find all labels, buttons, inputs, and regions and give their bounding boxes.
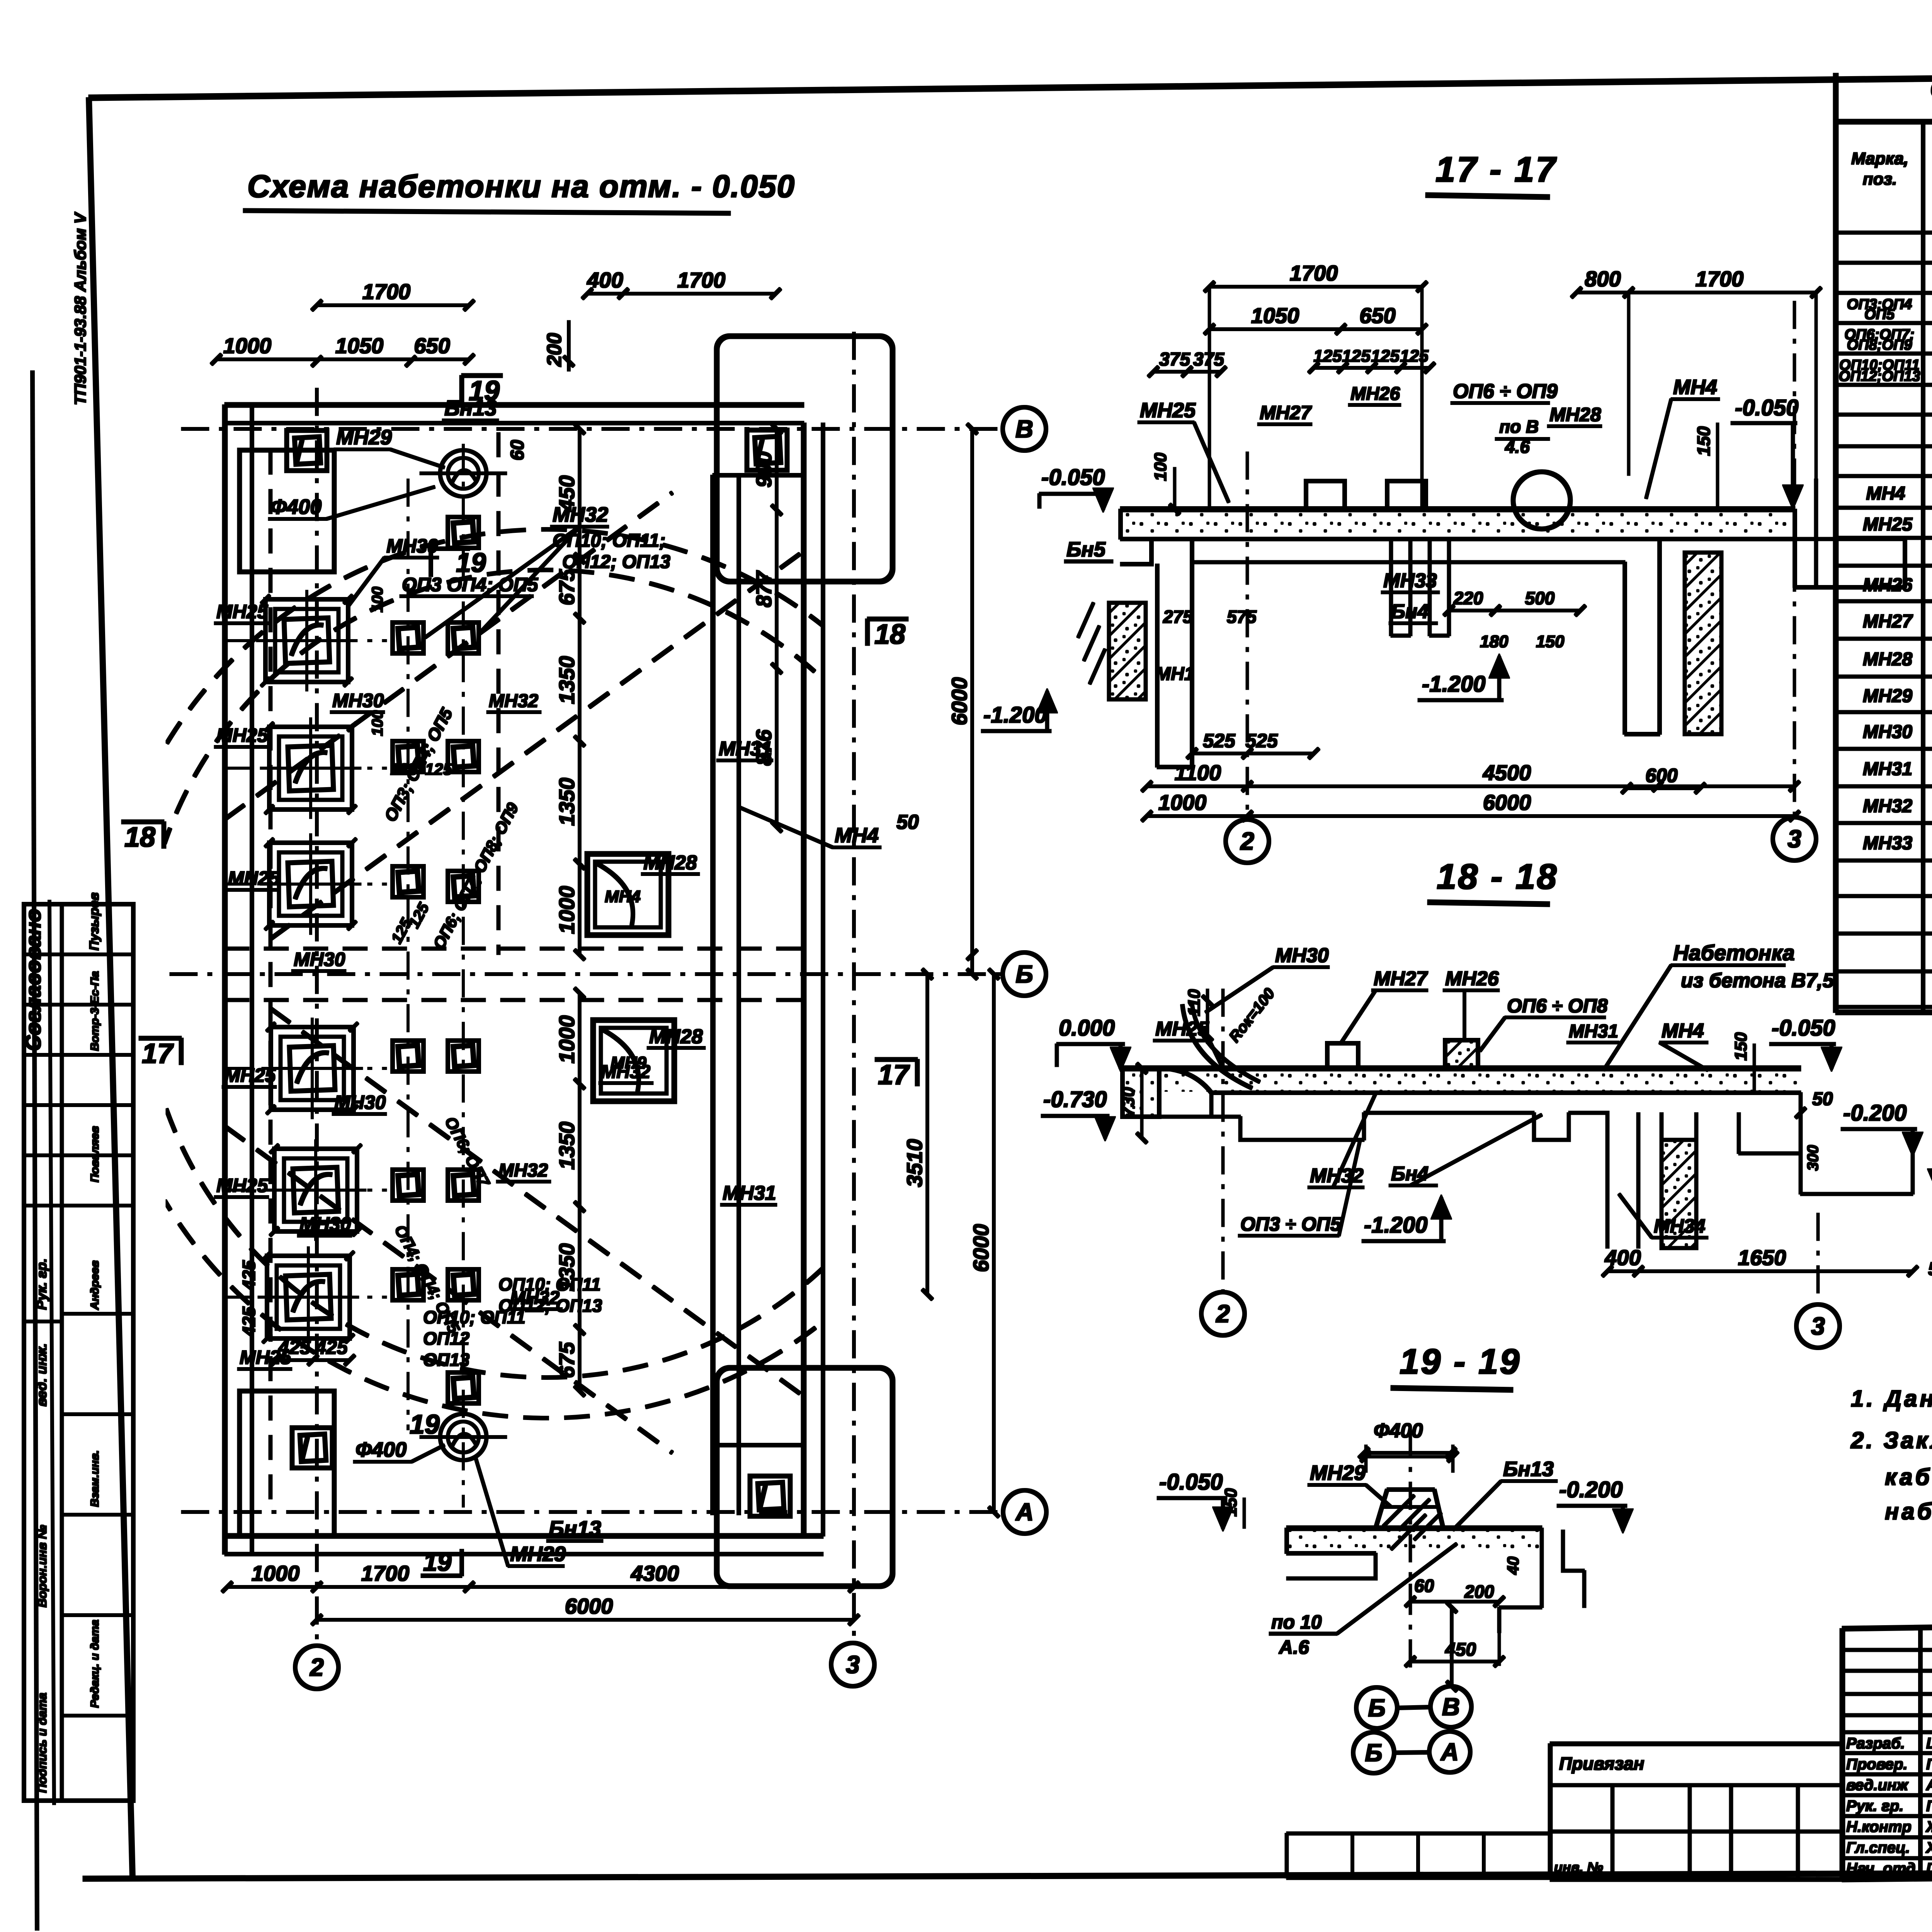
svg-text:Бн4: Бн4 [1391, 1163, 1429, 1185]
pad MH25 #1 [265, 599, 348, 682]
svg-text:Ф400: Ф400 [1374, 1420, 1423, 1442]
svg-text:19: 19 [423, 1548, 452, 1576]
pad small bottom axis2 [292, 1428, 332, 1468]
privyazan left strip [1287, 1832, 1550, 1835]
svg-text:Бн5: Бн5 [1066, 538, 1106, 561]
svg-text:19: 19 [456, 548, 486, 578]
svg-text:Провер.: Провер. [1846, 1756, 1908, 1773]
s17 left hatch block [1109, 603, 1146, 699]
pad MH25 #4 [271, 1027, 354, 1110]
embed MH29 bottom circle [440, 1414, 486, 1460]
svg-text:ОП12; ОП13: ОП12; ОП13 [498, 1296, 602, 1316]
svg-text:МН32: МН32 [553, 503, 608, 526]
svg-text:МН30: МН30 [334, 1092, 386, 1113]
svg-text:-1.200: -1.200 [1422, 672, 1485, 697]
svg-text:МН27: МН27 [1260, 402, 1312, 423]
svg-text:1. Данный лист рассматриват: 1. Данный лист рассматривать совместно с… [1851, 1386, 1932, 1412]
svg-text:675: 675 [554, 1342, 579, 1378]
svg-text:150: 150 [1694, 426, 1714, 456]
plan chain pad row 2 [225, 767, 386, 769]
svg-text:300: 300 [1804, 1145, 1821, 1171]
svg-text:ОП5: ОП5 [1864, 306, 1895, 323]
svg-text:ОП8;ОП9: ОП8;ОП9 [1847, 337, 1912, 353]
embed square #8 [448, 1041, 479, 1071]
sheet left edge line [32, 371, 37, 1930]
s17 mid stub 1 [1389, 539, 1393, 636]
svg-text:Андреева: Андреева [1926, 1777, 1932, 1794]
svg-text:МН32: МН32 [1310, 1165, 1364, 1187]
svg-text:1700: 1700 [1290, 261, 1338, 285]
s17 bottom dim 1100 4500 [1147, 785, 1794, 788]
svg-text:1350: 1350 [554, 778, 579, 826]
s19 center chain [1409, 1430, 1412, 1673]
svg-text:МН26: МН26 [1350, 384, 1400, 404]
svg-text:525: 525 [1203, 730, 1236, 752]
svg-text:50: 50 [1928, 1259, 1932, 1279]
svg-text:поз.: поз. [1863, 170, 1897, 189]
s17 under slab line [1192, 561, 1625, 564]
svg-text:МН32: МН32 [601, 1062, 650, 1082]
plan right vertical dim 6000 (Б-А) [993, 974, 995, 1512]
privyazan box [1550, 1742, 1842, 1746]
svg-text:4500: 4500 [1483, 760, 1531, 785]
pad MH25 #3 [269, 843, 352, 925]
svg-text:МН25: МН25 [216, 601, 269, 622]
s19 dim 450 vert [1451, 1607, 1453, 1686]
svg-text:50: 50 [896, 811, 919, 833]
plan top-left niche [240, 450, 334, 572]
svg-text:Взам.инв.: Взам.инв. [88, 1450, 101, 1507]
svg-text:375: 375 [1159, 349, 1190, 370]
svg-text:1100: 1100 [1175, 760, 1221, 785]
s17 left ledge [1121, 539, 1151, 564]
svg-text:6000: 6000 [947, 677, 971, 726]
plan bottom dim 6000 [317, 1619, 854, 1621]
plan bottom-right room outline [717, 1368, 893, 1586]
svg-text:425: 425 [239, 1306, 259, 1337]
plan top-right dims 400/1700 [587, 293, 776, 295]
s17 axis 3 line [1793, 301, 1796, 817]
svg-text:125: 125 [390, 760, 418, 778]
s18 axis 2 line [1222, 989, 1224, 1292]
svg-text:17: 17 [878, 1060, 910, 1090]
s17 dims 525 525 [1192, 752, 1314, 755]
svg-text:МН28: МН28 [1863, 649, 1912, 670]
svg-text:МН29: МН29 [1310, 1461, 1366, 1485]
svg-text:Гразоболева: Гразоболева [1926, 1860, 1932, 1877]
plan axis Б horizontal chain line [170, 973, 1002, 976]
svg-text:вед. инж.: вед. инж. [34, 1343, 49, 1406]
s17 dims 220 500 [1449, 609, 1495, 612]
svg-text:400: 400 [587, 268, 623, 292]
svg-text:Андреев: Андреев [88, 1260, 101, 1310]
embed square #6 [448, 871, 479, 902]
plan top dims 1000/1050/650 [216, 358, 469, 361]
s18 hatch pier [1662, 1140, 1696, 1248]
svg-text:Набетонка: Набетонка [1673, 940, 1795, 965]
svg-text:МН1: МН1 [1155, 664, 1194, 684]
plan right wall [801, 423, 806, 1536]
svg-text:1700: 1700 [362, 279, 411, 304]
svg-text:Б: Б [1365, 1739, 1382, 1767]
s17 slab top line [1121, 507, 1795, 512]
svg-text:МН4: МН4 [1673, 376, 1717, 399]
svg-text:18: 18 [124, 822, 155, 853]
embed square #4 [448, 741, 479, 772]
svg-text:МН27: МН27 [1374, 968, 1428, 990]
plan dashed band at axis Б [225, 947, 804, 950]
svg-text:-0.050: -0.050 [1735, 395, 1798, 420]
s19 slab left edge [1285, 1528, 1289, 1553]
s17 dims 800 1700 right [1577, 291, 1816, 294]
plan chain pad row 6 [225, 1296, 386, 1298]
plan bottom dim line 1 [227, 1586, 854, 1588]
plan bottom wall [225, 1534, 823, 1538]
svg-text:730: 730 [1118, 1087, 1138, 1117]
plan dashed diagonal upper 1 [225, 493, 672, 819]
svg-text:ТП901-1-93.88 Альбом V: ТП901-1-93.88 Альбом V [71, 212, 89, 405]
plan top wall [225, 403, 804, 407]
svg-text:Н.контр: Н.контр [1846, 1818, 1912, 1835]
plan dashed vertical 2 [497, 433, 500, 954]
left stamp table [24, 904, 133, 1801]
svg-text:650: 650 [1359, 303, 1395, 328]
embed square #14 [448, 1372, 479, 1403]
svg-text:из бетона В7,5: из бетона В7,5 [1681, 969, 1834, 992]
svg-text:Халим: Халим [1925, 1839, 1932, 1856]
svg-text:МН4: МН4 [605, 887, 641, 906]
plan chain through square col 1 [407, 479, 409, 1430]
pad small top-right [747, 430, 787, 470]
page frame: bottom border [83, 1871, 1932, 1879]
svg-text:150: 150 [1221, 1488, 1240, 1517]
svg-text:МН27: МН27 [1863, 611, 1913, 632]
plan axis B circle [1003, 407, 1046, 451]
svg-text:-0.200: -0.200 [1843, 1100, 1906, 1126]
s17 slab stipple [1122, 512, 1793, 537]
svg-text:-0.050: -0.050 [1041, 465, 1105, 490]
svg-text:1000: 1000 [223, 333, 272, 358]
svg-text:50: 50 [1812, 1089, 1833, 1109]
svg-text:МН30: МН30 [1863, 722, 1912, 742]
svg-text:Рук. гр.: Рук. гр. [34, 1259, 49, 1310]
svg-text:по В: по В [1499, 417, 1539, 437]
s18 block МН27 [1327, 1043, 1358, 1068]
s17 left pier [1156, 564, 1159, 767]
plan dashed diagonal lower 1 [225, 1126, 672, 1453]
svg-text:19 - 19: 19 - 19 [1400, 1342, 1521, 1381]
svg-text:17 - 17: 17 - 17 [1435, 150, 1557, 189]
svg-text:МН26: МН26 [1863, 575, 1912, 595]
plan section mark 19 top [462, 374, 502, 378]
s17 slab left end [1119, 509, 1122, 539]
svg-text:1700: 1700 [1696, 267, 1744, 291]
svg-text:МН34: МН34 [1654, 1215, 1705, 1237]
svg-text:18 - 18: 18 - 18 [1437, 857, 1558, 896]
plan axis 3 vertical chain line [853, 332, 855, 1643]
svg-text:18: 18 [874, 619, 905, 650]
svg-text:1350: 1350 [554, 1122, 579, 1170]
svg-text:ОП12; ОП13: ОП12; ОП13 [562, 552, 670, 572]
svg-text:МН25: МН25 [1155, 1018, 1209, 1040]
plan axis A circle [1003, 1490, 1046, 1534]
svg-text:МН4: МН4 [835, 824, 879, 847]
pad MH25 #5 [274, 1149, 357, 1231]
plan inner wall vertical [711, 475, 715, 1515]
svg-text:ОП10; ОП11: ОП10; ОП11 [498, 1274, 601, 1294]
s17 mid stub 2 [1428, 539, 1431, 636]
s17 curb block 2 [1387, 481, 1426, 509]
svg-text:100: 100 [369, 587, 386, 612]
svg-text:инв. №: инв. № [1554, 1859, 1603, 1875]
svg-text:3: 3 [1787, 825, 1801, 853]
svg-text:МН33: МН33 [1863, 833, 1912, 854]
svg-text:МН25: МН25 [1140, 399, 1196, 422]
plan axis B horizontal chain line [182, 428, 1002, 430]
svg-text:Поблядева: Поблядева [1926, 1756, 1932, 1773]
svg-text:Жило: Жило [1925, 1818, 1932, 1835]
plan inner wall bottom tie [713, 1444, 804, 1447]
plan rot dims 1350 chain [578, 618, 581, 741]
svg-text:МН25: МН25 [216, 1175, 269, 1196]
svg-text:Подпись и дата: Подпись и дата [35, 1693, 49, 1793]
svg-text:17: 17 [142, 1038, 174, 1069]
svg-text:Разраб.: Разраб. [1846, 1735, 1905, 1752]
svg-text:Схема набетонки на отм. - 0.: Схема набетонки на отм. - 0.050 [247, 169, 795, 204]
s19 sleeve hatch [1383, 1495, 1441, 1549]
svg-text:Поваляев: Поваляев [88, 1126, 101, 1182]
svg-text:МН4: МН4 [1866, 483, 1905, 504]
svg-text:4300: 4300 [631, 1561, 679, 1585]
svg-text:МН26: МН26 [1445, 968, 1499, 990]
svg-text:В: В [1442, 1693, 1460, 1721]
svg-text:МН30: МН30 [332, 690, 384, 711]
svg-text:180: 180 [1480, 632, 1509, 651]
svg-text:МН31: МН31 [1569, 1021, 1618, 1042]
s17 dims 125x4 [1314, 367, 1430, 369]
svg-text:Б: Б [1368, 1694, 1385, 1722]
svg-text:-1.200: -1.200 [983, 702, 1047, 728]
svg-text:1700: 1700 [677, 268, 726, 292]
plan top dim 1700 [317, 304, 469, 307]
embed square #12 [448, 1269, 479, 1300]
svg-text:575: 575 [1227, 607, 1257, 627]
plan chain pad row 4 [225, 1068, 386, 1070]
s17 curb block 1 [1306, 481, 1345, 509]
s17 dim 1700 [1209, 286, 1422, 288]
svg-text:3: 3 [846, 1651, 860, 1679]
svg-text:МН25: МН25 [240, 1347, 292, 1368]
svg-text:Согласовано: Согласовано [21, 909, 45, 1051]
svg-text:425: 425 [239, 1260, 259, 1290]
svg-text:1050: 1050 [1251, 303, 1299, 328]
svg-text:100: 100 [369, 710, 386, 736]
svg-text:Редакц. и дата: Редакц. и дата [88, 1620, 101, 1708]
svg-text:МН33: МН33 [1383, 570, 1437, 592]
page frame: top border [89, 71, 1932, 98]
plan chain pad row 1 [225, 640, 386, 642]
svg-text:МН28: МН28 [1549, 404, 1601, 425]
svg-text:877: 877 [752, 570, 776, 607]
s19 dim ф400 ticks [1366, 1456, 1453, 1458]
s17 dims 1050 650 [1209, 328, 1422, 331]
svg-text:В: В [1015, 415, 1033, 443]
plan rot dims lower half [578, 993, 581, 1084]
s18 slab bottom line [1211, 1091, 1801, 1095]
plan dashed diagonal upper 2 [270, 553, 802, 939]
svg-text:110: 110 [1185, 989, 1204, 1016]
plan chain through square col 2 [463, 444, 464, 1507]
svg-text:275: 275 [1163, 607, 1193, 627]
pad MH25 #6 [267, 1256, 350, 1338]
svg-text:2: 2 [1240, 827, 1254, 855]
svg-text:по 10: по 10 [1271, 1611, 1322, 1633]
s17 slab bottom line [1121, 537, 1795, 541]
plan left wall [223, 405, 227, 1554]
s19 axis legend [1356, 1687, 1397, 1728]
svg-text:6000: 6000 [565, 1594, 613, 1618]
svg-text:МН29: МН29 [510, 1543, 566, 1566]
plan chain pad row 3 [225, 883, 386, 885]
svg-text:400: 400 [1604, 1245, 1641, 1270]
sheet left edge inner line [49, 900, 54, 1804]
svg-text:675: 675 [554, 569, 579, 605]
svg-text:ОП12;ОП13: ОП12;ОП13 [1839, 368, 1920, 384]
svg-text:2. Закладные изделия МН30 ;: 2. Закладные изделия МН30 ; МН31 ; МН32 … [1850, 1427, 1932, 1453]
svg-text:6000: 6000 [1483, 790, 1531, 815]
embed square #1 [393, 622, 423, 653]
plan rot dims right 900/877/876 [776, 429, 778, 510]
plan section mark 18 right [867, 617, 908, 621]
svg-text:450: 450 [1445, 1639, 1476, 1660]
plan axis A horizontal chain line [182, 1511, 1002, 1514]
svg-text:Рук. гр.: Рук. гр. [1846, 1798, 1903, 1815]
s18 dims 400 1650 50 [1607, 1270, 1913, 1273]
svg-text:1700: 1700 [361, 1561, 410, 1585]
svg-text:100: 100 [1151, 452, 1170, 481]
s17 axis circle 2 [1226, 820, 1269, 863]
svg-text:вед.инж: вед.инж [1846, 1777, 1909, 1794]
panel MH28 #1 [587, 854, 668, 935]
s17 dims 375 375 [1153, 371, 1221, 373]
svg-text:МН28: МН28 [649, 1026, 703, 1048]
embed square #11 [393, 1269, 423, 1300]
svg-text:220: 220 [1453, 588, 1483, 608]
s18 axis circle 2 [1201, 1292, 1245, 1335]
s17 axis 2 line [1246, 452, 1248, 819]
svg-text:А.6: А.6 [1278, 1636, 1310, 1658]
svg-text:150: 150 [1536, 632, 1565, 651]
s17 right end block [1793, 509, 1797, 587]
panel MH28 #2 [593, 1020, 674, 1101]
s18 below line2 [1364, 1112, 1534, 1113]
s19 sleeve [1376, 1490, 1443, 1528]
plan dashed circle inner [143, 570, 951, 1378]
embed square #2 [448, 622, 479, 653]
plan rot dims 450 675 (top) [578, 429, 581, 558]
svg-text:650: 650 [414, 333, 450, 358]
svg-text:60: 60 [1414, 1576, 1434, 1596]
s18 left end block [1122, 1068, 1159, 1117]
svg-text:19: 19 [469, 376, 500, 406]
svg-text:3510: 3510 [902, 1139, 927, 1187]
svg-text:МН30: МН30 [299, 1213, 351, 1235]
plan section mark 17 left [139, 1036, 181, 1040]
svg-text:Б: Б [1015, 960, 1033, 988]
svg-text:Поваляева: Поваляева [1926, 1798, 1932, 1815]
svg-text:2: 2 [1216, 1300, 1230, 1328]
s17 pipe circle [1513, 472, 1570, 529]
plan right vertical dim 3510 [926, 974, 929, 1294]
s17 hatch marks left [1078, 603, 1105, 684]
svg-text:МН32: МН32 [1863, 796, 1912, 816]
svg-text:-0.200: -0.200 [1559, 1477, 1622, 1502]
svg-text:900: 900 [752, 451, 776, 487]
pad small bottom-right [750, 1476, 790, 1516]
svg-text:Гл.спец.: Гл.спец. [1846, 1839, 1910, 1856]
svg-text:1650: 1650 [1738, 1245, 1786, 1270]
svg-text:кабеля ) проложить в набето: кабеля ) проложить в набетонке на отм. -… [1885, 1464, 1932, 1490]
plan axis Б circle [1003, 952, 1046, 996]
embed square #7 [393, 1041, 423, 1071]
s18 axis circle 3 [1796, 1304, 1840, 1348]
svg-text:1000: 1000 [554, 886, 579, 934]
svg-text:2: 2 [310, 1653, 324, 1681]
svg-text:МН4: МН4 [1662, 1020, 1704, 1042]
svg-text:МН31: МН31 [723, 1182, 776, 1204]
plan section mark 17 right [875, 1058, 917, 1061]
svg-text:125: 125 [1313, 347, 1342, 366]
svg-text:425: 425 [315, 1337, 348, 1358]
s17 right hatch block [1685, 553, 1721, 734]
s17 dim 600 [1627, 787, 1700, 790]
plan axis 2 circle [295, 1646, 338, 1689]
svg-text:-0.050: -0.050 [1772, 1015, 1835, 1041]
svg-text:наблюдением электромонтажнико: наблюдением электромонтажников. [1885, 1498, 1932, 1524]
svg-text:200: 200 [543, 333, 566, 367]
s18 rok curve [1163, 1068, 1211, 1093]
svg-text:1000: 1000 [252, 1561, 300, 1585]
svg-text:Нач. отд: Нач. отд [1846, 1860, 1915, 1877]
s19 slab [1287, 1526, 1542, 1531]
svg-text:1000: 1000 [1158, 790, 1207, 815]
svg-text:1050: 1050 [335, 333, 384, 358]
svg-text:1000: 1000 [554, 1015, 579, 1064]
svg-text:Спецификация к схеме рас: Спецификация к схеме расположения [1930, 76, 1932, 103]
title block grid [1842, 1617, 1932, 1629]
pad small top axis2 [287, 430, 327, 471]
svg-text:3: 3 [1811, 1312, 1825, 1340]
plan chain pad row 5 [225, 1189, 386, 1191]
embed square #9 [393, 1170, 423, 1201]
svg-text:ОП10; ОП11;: ОП10; ОП11; [553, 531, 665, 551]
plan dashed circle outer [102, 529, 991, 1418]
s18 below outline [1159, 1093, 1638, 1248]
svg-text:1350: 1350 [554, 656, 579, 704]
svg-text:МН30: МН30 [1275, 944, 1329, 967]
svg-text:ОП6 ÷ ОП9: ОП6 ÷ ОП9 [1453, 380, 1558, 403]
plan right vertical dim 6000 (В-Б) [971, 429, 974, 974]
s18 axis 3 line [1817, 1213, 1819, 1304]
svg-text:МН31: МН31 [719, 738, 772, 760]
svg-text:Шабалина: Шабалина [1926, 1735, 1932, 1752]
svg-text:Ф400: Ф400 [270, 495, 321, 519]
svg-text:МН30: МН30 [294, 949, 345, 970]
s18 right steps [1739, 1093, 1913, 1194]
svg-text:Привязан: Привязан [1559, 1753, 1644, 1774]
pad MH25 #2 [269, 727, 352, 810]
svg-text:МН28: МН28 [643, 852, 697, 874]
